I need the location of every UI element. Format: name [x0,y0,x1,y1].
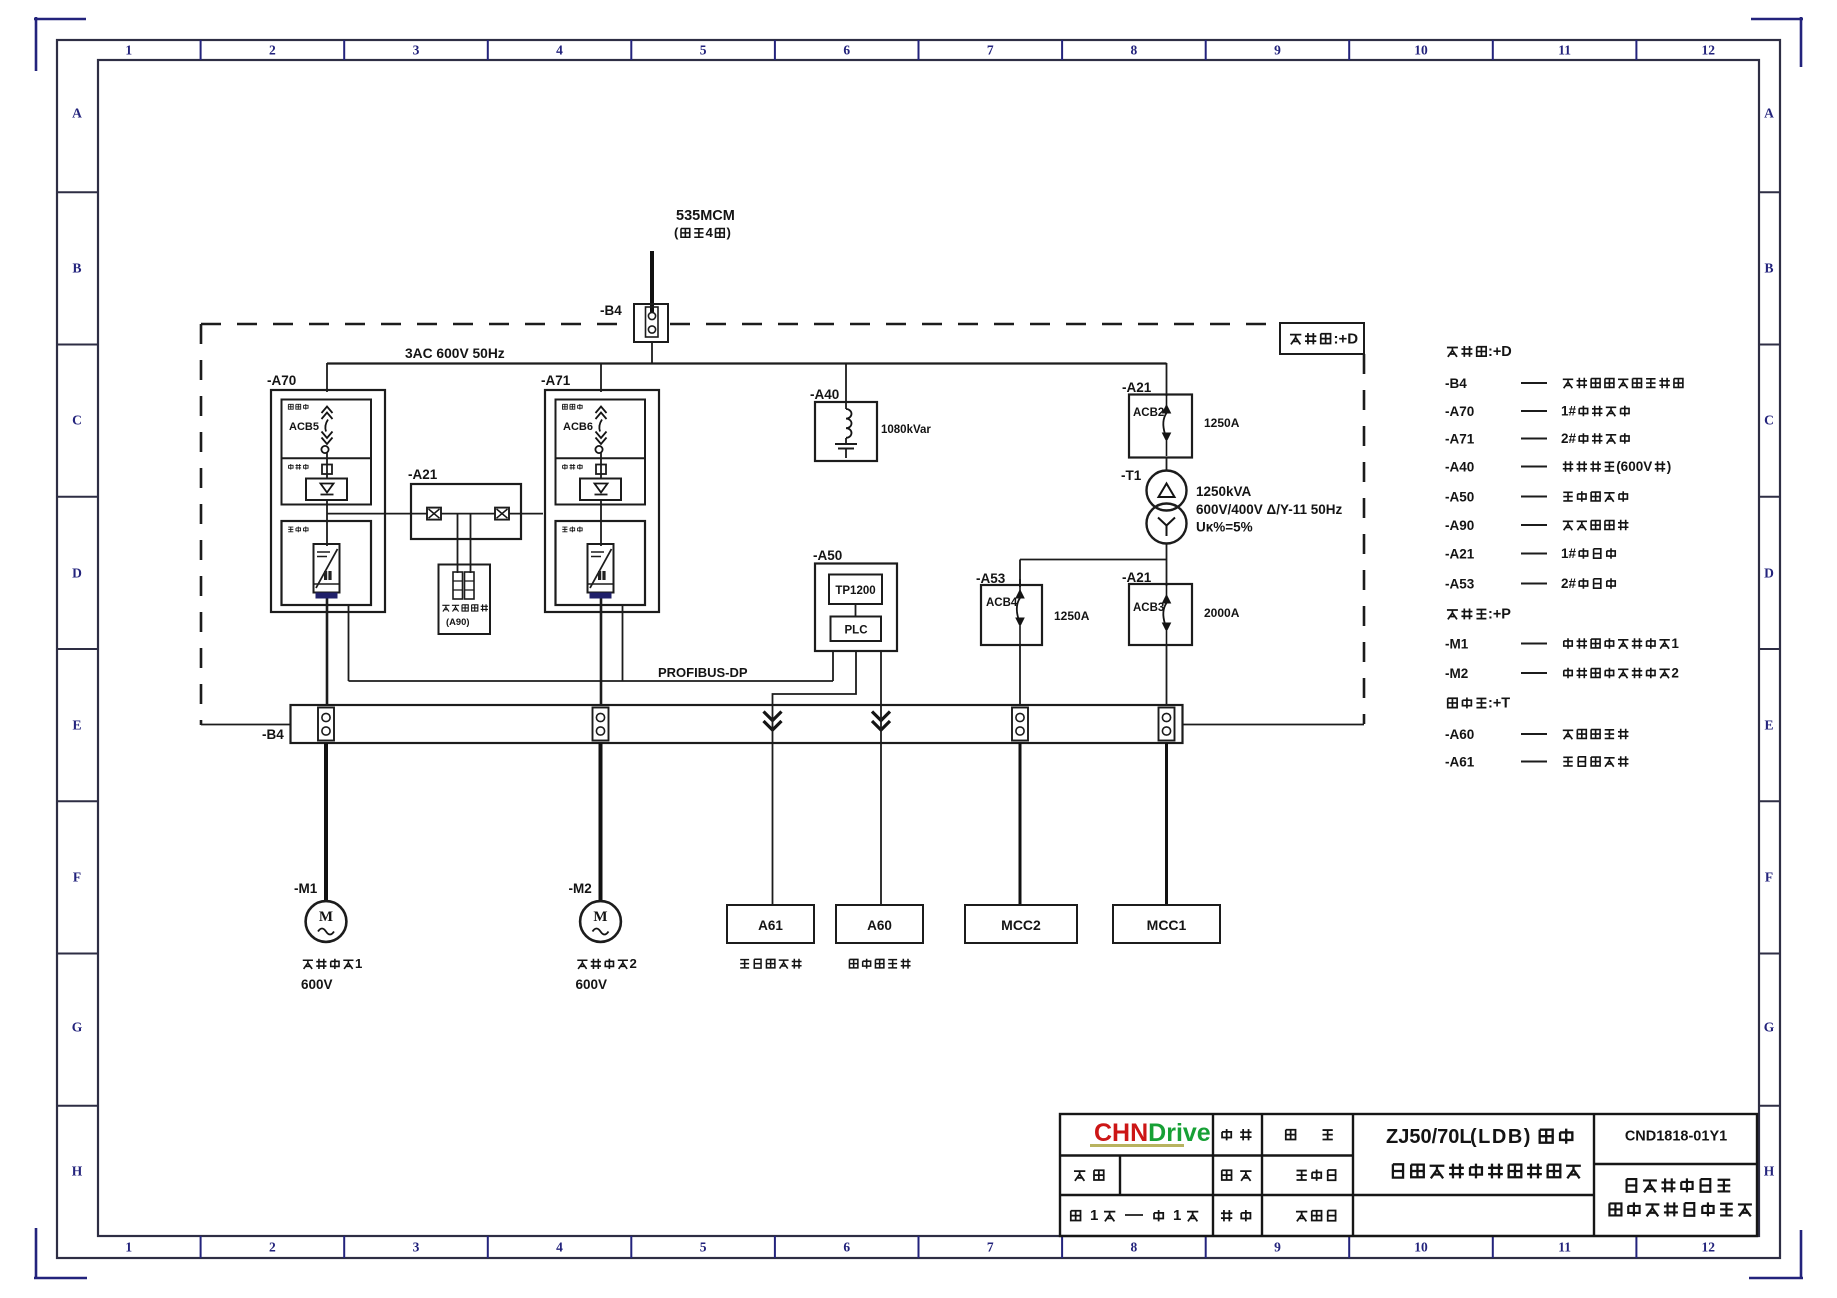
legend row -B4 [1445,376,1683,391]
A61 name text [740,960,749,968]
motor -M1 name text [303,960,313,969]
title block field: designer [1222,1129,1231,1140]
enclosure low-voltage room +D dashed boundary top [201,323,631,326]
legend row -M2 [1445,665,1679,681]
legend header power area +P [1447,607,1511,623]
svg-text:-T1: -T1 [1121,468,1142,483]
svg-text:3: 3 [413,43,420,58]
checker name [1297,1171,1307,1180]
svg-text:(: ( [674,225,679,240]
svg-text:): ) [727,225,731,240]
inverter module icon -A71 [588,544,614,599]
wire A53 to bus duct [1019,645,1021,706]
svg-text:-A53: -A53 [976,571,1006,586]
braking resistor bank 1 [453,572,463,599]
svg-text:2: 2 [269,43,276,58]
wire T1 secondary down [1166,544,1168,587]
legend row -M1 [1445,636,1679,652]
enclosure bottom solid segment left [201,724,291,726]
compensation cabinet A40 box [815,402,877,461]
enclosure dashed boundary right [1363,354,1366,724]
DC link wire A70 to fuse 1 [327,513,427,515]
title block vertical dividers [1213,1114,1594,1236]
corner mark bottom-right [1749,1230,1803,1279]
svg-text:2: 2 [1671,665,1679,680]
column number labels 1-12 bottom [125,1240,1715,1255]
svg-text:M: M [593,909,607,925]
transformer T1 symbol (delta winding) [1147,471,1187,511]
svg-text:535MCM: 535MCM [676,208,735,224]
svg-text:9: 9 [1274,1240,1281,1255]
svg-text:-M1: -M1 [1445,637,1469,652]
svg-text:1250A: 1250A [1054,609,1090,623]
bus duct plug arrow (A61 tap) [764,712,782,731]
title block sheet count [1071,1207,1199,1224]
legend row -A61 [1445,755,1628,770]
VFD cabinet -A70 outer box [271,390,385,612]
bus duct receptacle connector (MCC1 tap) [1159,708,1175,741]
wire bus to A40 [845,363,847,409]
svg-text:-A53: -A53 [1445,577,1475,592]
title block field: scale [1074,1171,1085,1181]
wire ACB3 to bus duct [1166,645,1168,706]
wire rectifier to inverter DC link [600,500,602,546]
svg-text:7: 7 [987,43,994,58]
svg-text:F: F [1765,870,1773,885]
rectifier fuse block (small rect on feed) [596,465,606,475]
corner mark bottom-left [34,1228,87,1279]
svg-text:11: 11 [1558,1240,1571,1255]
svg-text:-A70: -A70 [267,373,296,388]
-A71 inverter section box [556,521,646,605]
wire bus duct to motor M1 (thick) [324,743,328,902]
svg-text:12: 12 [1701,1240,1715,1255]
svg-text:7: 7 [987,1240,994,1255]
wire connector B4 to bus [651,342,653,364]
svg-text:G: G [72,1020,83,1035]
CHNDrive logo [1090,1119,1211,1147]
-A70 inverter section box [282,521,372,605]
legend row -A90 [1445,518,1628,533]
svg-text:1: 1 [1671,636,1679,651]
wire bus duct to A60 [880,706,882,905]
bus 3AC 600V 50Hz [327,362,1167,364]
switch cabinet A21 (ACB3) box [1129,584,1192,645]
transformer T1 symbol (wye winding) [1147,504,1187,544]
wire bus to A21 top switch cabinet [1166,363,1168,396]
company name line 1 [1627,1179,1637,1192]
svg-text:TP1200: TP1200 [835,585,875,597]
title block field: checker [1222,1170,1232,1180]
svg-text:A60: A60 [867,918,892,933]
wire bus duct to MCC2 (thick) [1019,743,1022,905]
motor -M1 symbol [306,901,347,942]
svg-text:ZJ50/70L: ZJ50/70L [1386,1126,1472,1148]
circuit breaker ACB3 symbol [1163,584,1171,644]
svg-text:B: B [72,261,81,276]
approver name [1296,1212,1307,1222]
bus duct plug arrow (A60 tap) [872,712,890,731]
svg-text:PROFIBUS-DP: PROFIBUS-DP [658,665,748,680]
circuit breaker ACB6 symbol (drawout) [595,407,606,454]
svg-text:1: 1 [355,956,362,971]
svg-text:-A50: -A50 [1445,490,1474,505]
wire -A71 output to bus duct [600,599,603,707]
svg-text:4: 4 [706,225,714,240]
bus duct receptacle connector (MCC2 tap) [1012,708,1028,741]
wire bus duct to motor M2 (thick) [599,743,603,902]
svg-text:1#: 1# [1561,403,1577,418]
svg-text:ACB5: ACB5 [289,421,319,433]
svg-text::+D: :+D [1488,344,1512,360]
svg-text:1: 1 [1173,1207,1181,1224]
title block field: approver [1221,1210,1232,1221]
A60 name text [849,959,857,967]
wire bus duct to A61 [772,706,774,905]
enclosure dashed boundary left [200,324,203,725]
svg-text:2000A: 2000A [1204,606,1240,620]
wire bus to A70 [326,363,328,392]
svg-text:F: F [73,870,81,885]
wire PROFIBUS to A50 [832,651,834,681]
svg-text:A61: A61 [758,918,783,933]
rectifier (thyristor) box -A71 [580,479,621,501]
svg-text:C: C [72,413,82,428]
rectifier (thyristor) box -A70 [306,479,347,501]
svg-text:-A21: -A21 [1445,547,1475,562]
svg-text:MCC2: MCC2 [1001,917,1041,933]
row letter labels A-H right [1764,106,1775,1179]
legend header drill floor area +T [1448,696,1511,712]
svg-text:1250kVA: 1250kVA [1196,484,1252,499]
wire ACB2 to transformer T1 [1166,458,1168,472]
legend row -A40 [1445,459,1671,475]
svg-text:1: 1 [125,1240,132,1255]
enclosure name tag box (low-voltage room +D) [1280,323,1364,354]
A40 filter inductor [846,409,852,438]
corner mark top-right [1751,17,1803,67]
svg-text:(A90): (A90) [446,616,469,627]
svg-text:-A21: -A21 [1122,570,1152,585]
svg-text:-A50: -A50 [813,548,842,563]
-A70 incomer section tiny label [288,404,293,409]
wire branch to A53 [1020,560,1167,588]
svg-text::+D: :+D [1334,331,1359,348]
enclosure bottom solid segment right [1182,724,1364,726]
legend header low-voltage room +D [1447,344,1512,360]
svg-text:A: A [1764,106,1774,121]
svg-text:CHNDrive: CHNDrive [1094,1119,1211,1147]
svg-text:5: 5 [700,1240,707,1255]
wire bus to A71 [600,363,602,392]
-A71 incomer section tiny label [562,404,567,409]
svg-text:(600V: (600V [1616,459,1652,474]
svg-text:-A21: -A21 [408,467,438,482]
svg-text:10: 10 [1414,1240,1428,1255]
svg-text:12: 12 [1701,43,1715,58]
switch cabinet A21 (ACB2) box [1129,395,1192,458]
wire chopper to braking resistor right [470,514,472,573]
svg-text:10: 10 [1414,43,1428,58]
svg-text:-A71: -A71 [541,373,571,388]
company name line 2 [1609,1203,1621,1215]
column number labels 1-12 top [125,43,1715,58]
svg-text:H: H [72,1164,83,1179]
MCC2 box [965,905,1077,943]
svg-text:1: 1 [1090,1207,1098,1224]
DC link wire fuse2 to A71 [509,513,543,515]
svg-text:5: 5 [700,43,707,58]
-A71 incomer/rectifier section box [556,400,646,505]
-A70 incomer/rectifier section box [282,400,372,505]
control cabinet A50 box [815,564,897,652]
svg-text:ACB6: ACB6 [563,421,593,433]
svg-text:4: 4 [556,43,563,58]
svg-text:ACB2: ACB2 [1133,407,1164,419]
svg-text:): ) [1667,459,1672,474]
svg-text:-M1: -M1 [294,881,318,896]
svg-text:-M2: -M2 [1445,666,1468,681]
title block horizontal dividers [1060,1156,1757,1196]
-A70 inverter section tiny label [288,527,293,532]
braking resistor box label [442,604,488,627]
svg-text:9: 9 [1274,43,1281,58]
MCC1 box [1113,905,1220,943]
svg-text:-A61: -A61 [1445,755,1475,770]
svg-text:4: 4 [556,1240,563,1255]
PLC box [831,617,882,642]
wire -A70 profibus drop [348,605,350,681]
HMI TP1200 box [829,575,882,605]
T1 rating text [1196,484,1343,535]
VFD cabinet -A71 outer box [545,390,659,612]
svg-text:1: 1 [125,43,132,58]
legend row -A50 [1445,490,1627,505]
svg-text:-B4: -B4 [600,303,622,318]
wire chopper to braking resistor left [457,514,459,573]
connector B4 top (receptacle symbol) [634,304,668,342]
legend row -A53 [1445,576,1615,592]
motor -M2 symbol [580,901,621,942]
driller operation box A60 [836,905,923,943]
svg-text:8: 8 [1131,43,1138,58]
legend row -A21 [1445,546,1615,562]
braking resistor bank 2 [465,572,475,599]
chopper cabinet A21 box [411,484,521,539]
chopper fuse 2 symbol [495,508,509,520]
svg-text:1#: 1# [1561,546,1577,561]
legend row -A71 [1445,431,1629,447]
svg-text:-A90: -A90 [1445,518,1474,533]
bus duct receptacle connector (M2 tap) [593,708,609,741]
circuit breaker ACB5 symbol (drawout) [321,407,332,454]
svg-text:C: C [1764,413,1774,428]
svg-text:3: 3 [413,1240,420,1255]
svg-text:6: 6 [843,1240,850,1255]
svg-text::+T: :+T [1488,696,1510,712]
wire breaker to rectifier [326,453,328,478]
svg-text:E: E [72,718,81,733]
circuit breaker ACB4 symbol [1016,579,1024,644]
circuit breaker ACB2 symbol [1163,394,1171,456]
svg-text:D: D [1764,566,1774,581]
legend row -A70 [1445,403,1629,419]
svg-text:-A71: -A71 [1445,432,1475,447]
bus duct receptacle connector (M1 tap) [318,708,334,741]
wire A50 to driller box A60 [880,651,882,706]
wire breaker to rectifier [600,453,602,478]
row letter labels A-H left [72,106,83,1179]
-A70 rectifier section tiny label [288,464,293,470]
svg-text:1080kVar: 1080kVar [881,424,931,436]
svg-text:ACB4: ACB4 [986,597,1018,609]
braking resistor box A90 [439,565,491,635]
PROFIBUS-DP wire [349,680,834,682]
wire bus duct to MCC1 (thick) [1165,743,1168,905]
svg-text:600V: 600V [576,977,608,992]
-A71 inverter section tiny label [562,527,567,532]
row tick marks left and right bands [57,192,1780,1106]
svg-text:-A21: -A21 [1122,380,1152,395]
svg-text:M: M [319,909,333,925]
svg-text:600V: 600V [301,977,333,992]
svg-text:-A60: -A60 [1445,727,1474,742]
svg-text:600V/400V Δ/Y-11 50Hz: 600V/400V Δ/Y-11 50Hz [1196,502,1343,517]
drawing title line 2 [1393,1164,1403,1177]
svg-text::+P: :+P [1488,607,1511,623]
svg-text:-A40: -A40 [810,387,839,402]
svg-text:8: 8 [1131,1240,1138,1255]
svg-text:2#: 2# [1561,576,1577,591]
svg-text:MCC1: MCC1 [1147,917,1187,933]
wire rectifier to inverter DC link [326,500,328,546]
incoming feeder wire (thick drop) [650,251,654,313]
title block outline [1060,1114,1757,1236]
remote control box A61 [727,905,814,943]
rectifier fuse block (small rect on feed) [322,465,332,475]
svg-text:A: A [72,106,82,121]
svg-text:2: 2 [630,956,637,971]
wire TP1200 to PLC [855,604,857,617]
svg-text:-M2: -M2 [569,881,592,896]
svg-text:-A70: -A70 [1445,404,1474,419]
svg-text:1250A: 1250A [1204,416,1240,430]
svg-text:G: G [1764,1020,1775,1035]
svg-text:ACB3: ACB3 [1133,602,1164,614]
svg-text:(LDB): (LDB) [1470,1126,1532,1148]
wire A50 to remote box A61 [773,651,857,706]
svg-text:CND1818-01Y1: CND1818-01Y1 [1625,1129,1727,1145]
column tick marks top and bottom bands [201,40,1637,1258]
svg-text:6: 6 [843,43,850,58]
svg-text:-A40: -A40 [1445,460,1474,475]
wire -A70 output to bus duct [326,599,329,707]
svg-text:-B4: -B4 [1445,376,1467,391]
svg-text:2: 2 [269,1240,276,1255]
incoming cable label 535MCM (4 per phase) [674,208,735,240]
svg-text:PLC: PLC [845,625,868,637]
corner mark top-left [34,17,86,71]
switch cabinet A53 box [981,585,1042,645]
A40 filter capacitor [835,438,857,458]
svg-text:-B4: -B4 [262,727,284,742]
svg-text:H: H [1764,1164,1775,1179]
motor -M2 name text [577,960,587,969]
svg-text:Uκ%=5%: Uκ%=5% [1196,520,1253,535]
chopper fuse 1 symbol [427,508,441,520]
bus duct B4 (long box) [291,705,1183,743]
svg-text:E: E [1764,718,1773,733]
drawing title line 1 [1386,1126,1572,1148]
svg-text:D: D [72,566,82,581]
designer name [1286,1130,1333,1140]
legend row -A60 [1445,727,1628,742]
DC link wire fuse1 to fuse2 [441,513,495,515]
svg-text:B: B [1764,261,1773,276]
inverter module icon -A70 [314,544,340,599]
svg-text:3AC 600V 50Hz: 3AC 600V 50Hz [405,346,505,361]
svg-text:2#: 2# [1561,431,1577,446]
-A71 rectifier section tiny label [563,464,568,470]
wire -A71 profibus drop [622,605,624,681]
svg-text:11: 11 [1558,43,1571,58]
